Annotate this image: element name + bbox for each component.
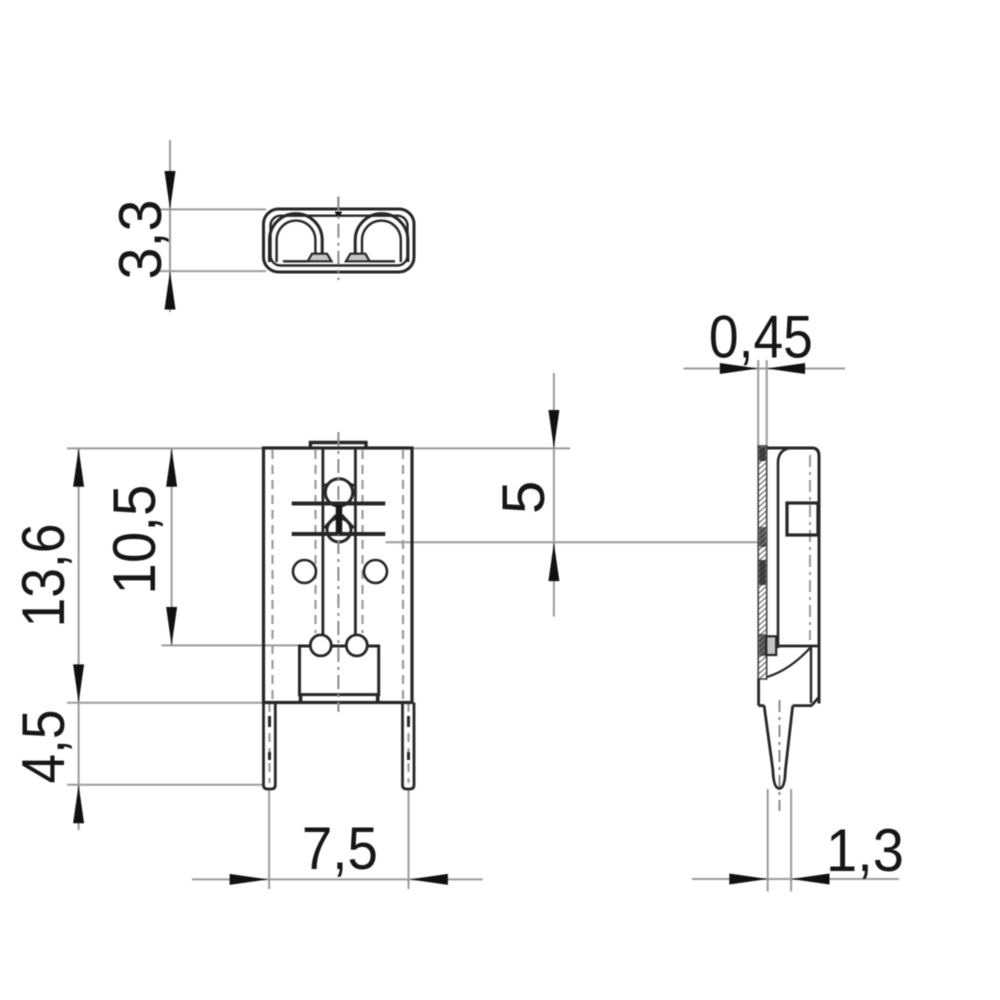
svg-text:5: 5 [490,481,557,514]
svg-text:1,3: 1,3 [826,817,904,884]
svg-text:13,6: 13,6 [10,524,77,628]
svg-text:4,5: 4,5 [10,710,77,784]
svg-text:3,3: 3,3 [107,200,174,280]
svg-text:7,5: 7,5 [302,815,378,882]
svg-text:10,5: 10,5 [101,485,168,595]
svg-text:0,45: 0,45 [709,304,813,371]
